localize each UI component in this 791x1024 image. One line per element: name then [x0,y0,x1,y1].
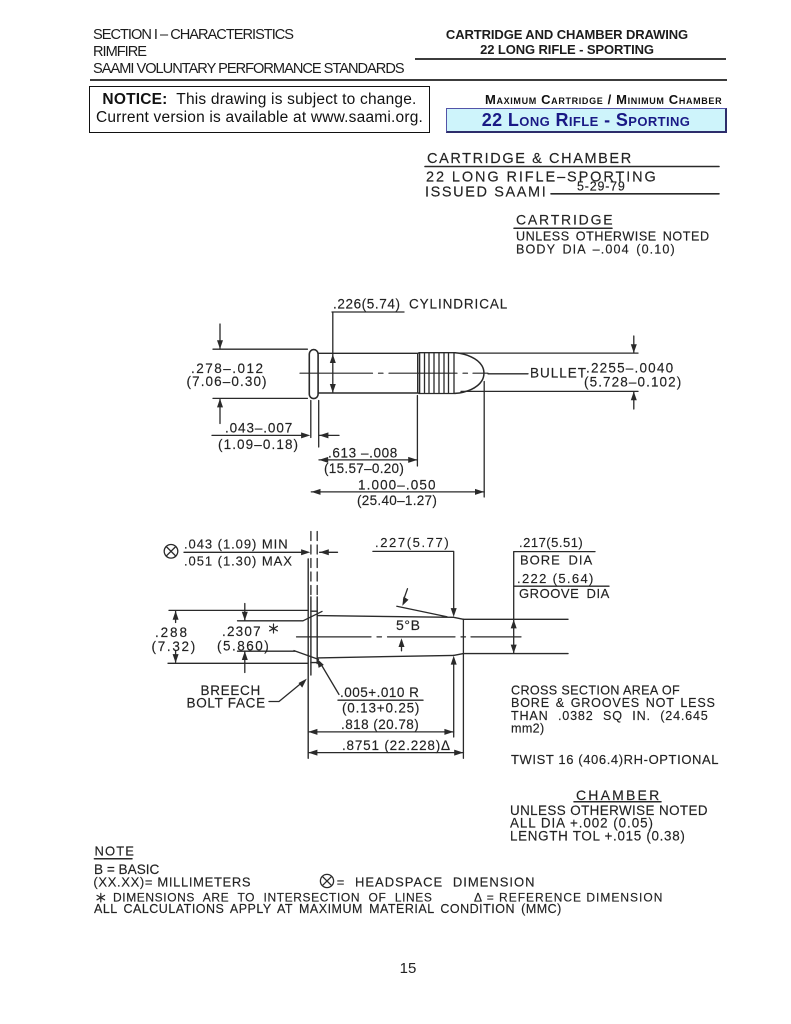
svg-text:.818 (20.78): .818 (20.78) [341,717,419,732]
svg-text:.222 (5.64): .222 (5.64) [517,571,595,586]
svg-text:= HEADSPACE DIMENSION: = HEADSPACE DIMENSION [337,874,536,889]
rim dia extension lines [213,349,307,398]
headspace symbol [164,545,178,559]
svg-text:CYLINDRICAL: CYLINDRICAL [409,297,508,312]
headspace extension lines (dashed) [310,532,312,598]
notice box [89,86,430,133]
svg-text:.288: .288 [155,625,189,640]
note underline [94,858,132,860]
chamber left extension lines [168,610,322,663]
5 degree leader arrow [404,589,408,600]
maximum cartridge / minimum chamber label [485,92,722,107]
dim .2307 arrows [244,604,246,673]
svg-text:(7.32): (7.32) [152,639,197,654]
svg-text:.043 (1.09) MIN: .043 (1.09) MIN [184,536,289,551]
svg-text:1.000–.050: 1.000–.050 [358,477,437,492]
dim .226 cylindrical label [333,297,508,312]
svg-text:BOLT FACE: BOLT FACE [187,696,266,711]
header left: section titles [93,27,404,78]
bore dia label underlines [514,552,609,587]
bore dia extension and double arrow [513,552,515,653]
5 degree label [396,617,421,633]
dim .8751 text [342,738,451,753]
cartridge notes heading [516,212,710,257]
centerline pointer arrow under 5B [401,641,403,651]
svg-text:.227(5.77): .227(5.77) [375,535,450,550]
svg-text:5°B: 5°B [396,617,421,633]
rim dia arrows [219,324,221,424]
svg-text:.005+.010 R: .005+.010 R [340,685,419,700]
note headspace symbol [320,874,333,887]
svg-text:.226(5.74): .226(5.74) [333,297,401,312]
svg-text:.043–.007: .043–.007 [225,421,293,436]
star symbol for .2307 [270,624,278,633]
case body [318,353,419,393]
title underlines [425,167,719,194]
dim .613 text [324,445,404,476]
svg-text:LENGTH TOL +.015 (0.38): LENGTH TOL +.015 (0.38) [510,828,686,843]
svg-text:mm2): mm2) [511,721,545,735]
header right: document title [404,28,730,58]
svg-text:(5.728–0.102): (5.728–0.102) [584,374,682,389]
svg-text:GROOVE DIA: GROOVE DIA [519,586,610,601]
title: cartridge & chamber heading [425,151,658,201]
dim 1.000 dimension line [311,491,484,493]
rule under right header [415,58,726,60]
full-width rule [90,79,727,81]
svg-text:(15.57–0.20): (15.57–0.20) [324,461,404,476]
dim .8751 dimension line [308,752,463,754]
bore/groove lines [463,619,568,653]
svg-text:5-29-79: 5-29-79 [577,180,626,194]
dim .818 text [341,717,419,732]
chamber centerline [297,636,522,638]
svg-text:(0.13+0.25): (0.13+0.25) [342,700,420,715]
cartridge heading underline [514,227,612,229]
dim .613 dimension line [319,459,417,461]
dim .043 text [218,421,299,452]
leade transition [454,617,464,655]
bullet ogive [455,353,484,394]
headspace min/max text [184,536,293,568]
breech bolt face leader [269,682,303,702]
dim .227 label [375,535,450,550]
chamber heading underline [574,801,661,803]
svg-text:.8751 (22.228)Δ: .8751 (22.228)Δ [342,738,451,753]
note block [93,844,663,916]
svg-text:CARTRIDGE: CARTRIDGE [516,212,614,228]
cross section note [511,684,716,736]
headspace dim line with arrows [184,551,302,553]
svg-text:(25.40–1.27): (25.40–1.27) [357,493,437,508]
bullet dia arrows [633,336,635,409]
blue title box [446,108,727,134]
dim .288 arrows [175,611,177,662]
centerline cartridge [300,372,488,374]
rim recess top and bottom [311,611,317,662]
5 degree leade angle line [397,606,447,617]
svg-text:.051 (1.30) MAX: .051 (1.30) MAX [184,553,293,568]
svg-text:.2255–.0040: .2255–.0040 [586,361,674,376]
dim .043 leader with arrow [212,434,302,436]
svg-text:NOTE: NOTE [95,844,136,859]
svg-text:CHAMBER: CHAMBER [576,787,661,803]
dim .227 leader and arrows [373,551,454,737]
svg-text:(1.09–0.18): (1.09–0.18) [218,437,299,452]
svg-text:(7.06–0.30): (7.06–0.30) [187,374,268,389]
svg-text:ISSUED SAAMI: ISSUED SAAMI [425,185,547,201]
bullet label leader [488,373,528,375]
dim .278 text [187,361,268,389]
dim .226 leader and arrows [332,312,404,393]
dim .005 text [340,685,420,716]
dim .005 underline [338,699,423,701]
chamber walls [317,616,453,658]
bullet dia extension lines [459,353,638,391]
chamber heading [510,787,708,843]
dim .005 radius leader [320,663,339,695]
svg-text:.2307: .2307 [222,624,262,639]
extension line at rifling origin [462,619,464,758]
svg-text:BULLET: BULLET [530,366,587,381]
svg-text:CARTRIDGE & CHAMBER: CARTRIDGE & CHAMBER [427,151,633,167]
svg-text:BORE DIA: BORE DIA [520,553,593,568]
svg-text:.613 –.008: .613 –.008 [328,445,398,460]
svg-text:UNLESS OTHERWISE NOTED: UNLESS OTHERWISE NOTED [516,230,710,244]
rim recess verticals [311,597,317,675]
bullet label text [530,361,682,390]
bore dia label [517,535,610,601]
bullet bands [419,353,455,394]
dim .818 dimension line [308,731,453,733]
note star symbol [97,893,105,902]
svg-text:TWIST 16 (406.4)RH-OPTIONAL: TWIST 16 (406.4)RH-OPTIONAL [511,752,719,767]
breech bolt face label [187,683,266,711]
svg-text:BODY DIA –.004 (0.10): BODY DIA –.004 (0.10) [516,243,676,257]
dim 1.000 text [357,477,437,508]
twist note [511,752,719,767]
dim .2307 text with star [217,624,270,654]
rim [309,350,318,399]
page number [396,960,420,977]
breech bolt face line [307,559,309,758]
rim thickness extension lines below rim [311,401,319,448]
svg-text:(5.860): (5.860) [217,639,270,654]
dim .288 text [152,625,197,654]
svg-text:ALL CALCULATIONS APPLY AT MAXI: ALL CALCULATIONS APPLY AT MAXIMUM MATERI… [94,902,562,916]
svg-text:.217(5.51): .217(5.51) [519,535,583,550]
svg-text:(XX.XX)= MILLIMETERS: (XX.XX)= MILLIMETERS [93,874,251,889]
